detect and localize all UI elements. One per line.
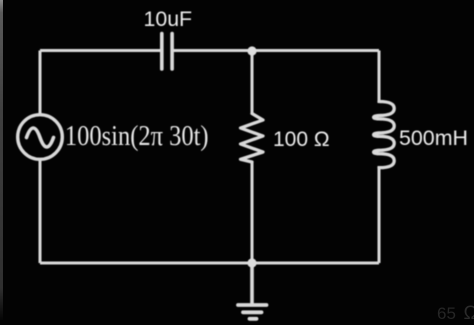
svg-text:Ω: Ω bbox=[464, 303, 474, 324]
svg-text:100sin(2π 30t): 100sin(2π 30t) bbox=[65, 120, 209, 152]
svg-text:10uF: 10uF bbox=[144, 7, 193, 31]
svg-text:65: 65 bbox=[437, 304, 456, 323]
svg-text:500mH: 500mH bbox=[399, 126, 468, 150]
svg-text:100 Ω: 100 Ω bbox=[273, 128, 330, 151]
